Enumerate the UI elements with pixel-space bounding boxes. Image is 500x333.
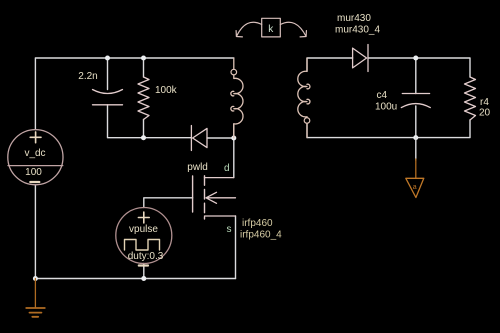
svg-text:irfp460_4: irfp460_4 [240, 230, 282, 241]
capacitor 2.2n curved plate [93, 90, 123, 94]
voltage source V1 minus [30, 181, 39, 183]
ground left bar 1 [26, 307, 45, 309]
node junction c4 top [413, 56, 418, 61]
wire mur430 cathode to r4 [368, 58, 470, 77]
svg-text:vpulse: vpulse [129, 224, 158, 235]
wire top rail primary [35, 58, 233, 130]
voltage source vpulse minus [139, 264, 148, 266]
capacitor c4 curved plate [401, 104, 430, 108]
wire snubber cap top lead [107, 58, 109, 90]
node junction top of resistor [141, 56, 146, 61]
voltage source V1 v_dc circle [8, 130, 63, 185]
svg-text:d: d [224, 163, 230, 174]
wire resistor 100k bottom lead [143, 120, 145, 138]
node junction c4 bottom [413, 135, 418, 140]
wire snubber cap bottom lead and rail [108, 105, 192, 138]
resistor 100k zigzag [138, 77, 149, 120]
mosfet irfp460 gate line [192, 176, 194, 212]
svg-text:s: s [227, 224, 232, 235]
node junction snubber rail [141, 135, 146, 140]
svg-text:duty:0.3: duty:0.3 [128, 251, 164, 262]
wire to right ground [415, 138, 417, 160]
wire gate to vpulse [144, 198, 193, 208]
voltage source V1 plus [30, 132, 41, 143]
diode mur430 triangle [353, 48, 367, 68]
coupling right arc arrow [280, 22, 306, 37]
diode pwld cathode bar [190, 126, 192, 151]
svg-text:a: a [413, 184, 417, 191]
transformer secondary phase dot [304, 118, 310, 124]
svg-text:2.2n: 2.2n [78, 71, 97, 82]
svg-text:100k: 100k [155, 85, 178, 96]
svg-text:20: 20 [479, 108, 491, 119]
wire secondary top rail [307, 58, 353, 71]
wire drain node vertical [233, 124, 235, 178]
node junction top of cap [105, 56, 110, 61]
ground right arrow triangle [406, 178, 424, 197]
node junction left ground [33, 276, 38, 281]
wire c4 top lead [415, 58, 417, 94]
wire bottom rail [35, 278, 235, 280]
ground left bar 3 [32, 316, 38, 318]
mosfet irfp460 bulk stub with arrow [206, 192, 236, 203]
svg-text:r4: r4 [480, 97, 489, 108]
coupling k box [262, 18, 281, 37]
ground left bar 2 [30, 312, 42, 314]
svg-text:100u: 100u [375, 102, 397, 113]
wire mosfet source to bottom rail [235, 216, 237, 279]
diode pwld triangle [193, 128, 207, 147]
wire c4 bottom lead [415, 106, 417, 138]
coupling left arc arrow [236, 22, 262, 37]
ground right pin [415, 159, 417, 178]
mosfet irfp460 drain stub [205, 177, 234, 179]
wire diode pwld anode to drain node [207, 137, 234, 139]
svg-text:pwld: pwld [187, 162, 208, 173]
node junction vpulse bottom [141, 276, 146, 281]
wire vpulse bottom lead [143, 264, 145, 279]
resistor r4 zigzag [465, 77, 476, 120]
voltage source vpulse circle [116, 208, 172, 264]
wire resistor 100k top lead [143, 58, 145, 77]
diode mur430 cathode bar [367, 45, 369, 72]
capacitor c4 straight plate [402, 93, 429, 95]
svg-text:v_dc: v_dc [24, 148, 45, 159]
svg-text:mur430: mur430 [337, 13, 371, 24]
wire v_dc bottom to bottom rail [34, 185, 36, 279]
svg-text:mur430_4: mur430_4 [335, 25, 380, 36]
svg-text:100: 100 [25, 167, 42, 178]
svg-text:c4: c4 [377, 90, 388, 101]
transformer secondary coil L2 [298, 58, 310, 138]
voltage source V1 chord line [8, 165, 63, 167]
wire secondary bottom rail [307, 120, 470, 138]
mosfet irfp460 source stub [205, 215, 236, 217]
svg-text:irfp460: irfp460 [242, 218, 273, 229]
mosfet irfp460 channel dashed line [204, 176, 206, 219]
ground left pin [34, 279, 36, 308]
voltage source vpulse square wave glyph [125, 240, 160, 251]
transformer primary coil L1 [231, 58, 243, 138]
transformer primary phase dot [231, 69, 237, 75]
node junction drain [231, 136, 236, 141]
capacitor 2.2n straight plate [93, 104, 123, 106]
voltage source vpulse plus [138, 212, 149, 223]
